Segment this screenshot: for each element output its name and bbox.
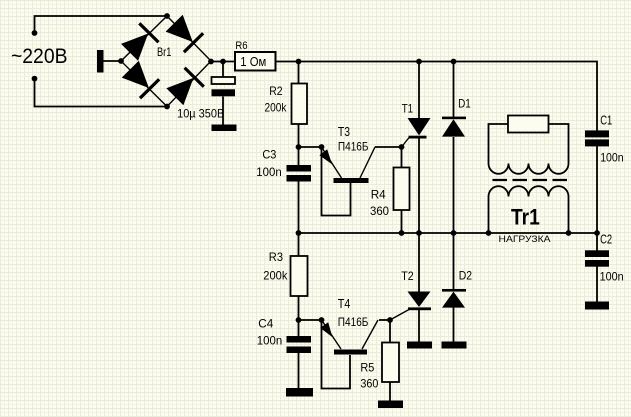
- svg-text:Br1: Br1: [157, 45, 172, 59]
- svg-text:R5: R5: [360, 361, 374, 375]
- node mid rail R3: [296, 230, 302, 236]
- capacitor C2: [585, 232, 624, 283]
- node bridge bottom: [164, 104, 170, 110]
- node mid rail T1/T2: [416, 230, 422, 236]
- ground bar under D2: [442, 342, 467, 349]
- node cap junction: [220, 59, 226, 65]
- node top rail D1: [451, 59, 457, 65]
- transistor T3: [319, 125, 368, 183]
- svg-text:10µ 350В: 10µ 350В: [177, 109, 225, 121]
- primary winding arcs: [489, 164, 569, 174]
- diode top-right: [165, 14, 205, 54]
- capacitor 10u 350V electrolytic: [177, 77, 235, 121]
- node mid rail R4: [399, 230, 405, 236]
- diode D1: [442, 96, 471, 136]
- node AC terminal bottom: [32, 76, 38, 82]
- wire node R3/C4 to T4: [299, 319, 322, 321]
- ground bar under 10u cap: [212, 125, 237, 132]
- wire mid rail: [299, 232, 598, 234]
- capacitor C4: [257, 317, 311, 354]
- wire transformer secondary ends: [488, 197, 490, 234]
- wire D2 branch: [453, 233, 455, 289]
- primary loop wires: [489, 124, 509, 164]
- svg-text:C3: C3: [262, 148, 276, 162]
- diode D2: [442, 268, 472, 307]
- capacitor C3: [256, 148, 311, 182]
- thyristor T1: [402, 101, 431, 138]
- wire R5 node down: [389, 320, 391, 343]
- transistor T4: [320, 297, 368, 355]
- node bridge left: [118, 58, 124, 64]
- svg-text:П416Б: П416Б: [338, 315, 369, 329]
- svg-text:C2: C2: [600, 232, 612, 246]
- wire C4 branch: [298, 320, 300, 336]
- resistor R4: [370, 168, 410, 219]
- wire 10u cap branch: [222, 62, 224, 78]
- ground bar left of bridge: [97, 50, 104, 73]
- diode top-left: [120, 22, 160, 62]
- resistor R2: [265, 84, 308, 125]
- wire D1 branch: [453, 62, 455, 118]
- resistor box in transformer primary loop: [508, 116, 549, 133]
- secondary winding arcs: [489, 186, 569, 196]
- wire T3 collector to node: [375, 146, 402, 148]
- bridge diamond wires: [121, 16, 211, 107]
- node mid rail Tr1 left: [486, 230, 492, 236]
- svg-text:D1: D1: [458, 96, 471, 110]
- svg-text:~220В: ~220В: [11, 44, 68, 68]
- wire C1 to mid rail: [596, 146, 598, 233]
- wire bridge left node to ground bar: [103, 60, 121, 62]
- resistor R3: [263, 250, 307, 296]
- diode bottom-right: [165, 67, 205, 107]
- wire T4 collector to node: [379, 319, 390, 321]
- transistor T4 collector line: [362, 320, 378, 349]
- svg-text:T3: T3: [338, 125, 350, 139]
- core dashed line: [493, 179, 568, 181]
- thyristor T1 gate line: [402, 137, 410, 147]
- diode bottom-left: [121, 60, 161, 100]
- transistor T3 collector line: [360, 147, 375, 178]
- svg-text:200k: 200k: [265, 101, 288, 115]
- ground bar under C2: [585, 302, 609, 310]
- transistor T4 emitter line: [322, 320, 342, 349]
- node mid rail C1/C2: [594, 230, 600, 236]
- node T2 gate / R5: [387, 317, 393, 323]
- wire T1 cathode to mid rail: [418, 138, 420, 233]
- wire AC bottom: [35, 79, 168, 107]
- capacitor C1: [585, 113, 624, 164]
- wire top rail: [276, 62, 598, 132]
- svg-text:T1: T1: [402, 101, 414, 115]
- ground bar under T2: [407, 342, 432, 349]
- thyristor T2: [401, 269, 431, 310]
- wire T2 branch: [418, 233, 420, 292]
- node top rail R2: [296, 59, 302, 65]
- svg-text:360: 360: [370, 204, 389, 218]
- wire C2 branch: [596, 233, 598, 251]
- svg-text:П416Б: П416Б: [338, 140, 369, 154]
- transformer Tr1: [489, 124, 569, 197]
- svg-text:R2: R2: [269, 84, 283, 98]
- svg-text:100n: 100n: [600, 270, 624, 284]
- svg-text:R3: R3: [269, 250, 283, 264]
- svg-text:C4: C4: [258, 317, 273, 331]
- resistor R5: [360, 343, 399, 391]
- ground bar under C4: [286, 388, 313, 397]
- wire T1 branch top: [418, 62, 420, 119]
- wire R2 branch: [298, 62, 300, 84]
- svg-text:1 Ом: 1 Ом: [240, 54, 266, 69]
- node mid rail Tr1 right: [566, 230, 572, 236]
- node T4 emitter: [319, 317, 325, 323]
- wire T3 base loop: [322, 147, 351, 216]
- node T1 gate / R4: [399, 144, 405, 150]
- svg-text:T4: T4: [338, 297, 351, 311]
- svg-text:T2: T2: [401, 269, 414, 283]
- wire bridge right node to R6: [211, 61, 235, 63]
- wire AC top: [35, 16, 168, 33]
- wire C3 to mid rail: [298, 148, 300, 165]
- node bridge right: [208, 59, 214, 65]
- ground bar under R5: [378, 401, 403, 409]
- wire R3 branch: [298, 233, 300, 256]
- resistor R6: [235, 40, 276, 71]
- node top rail T1: [416, 59, 422, 65]
- wire node R2/C3 to T3 emitter: [299, 146, 322, 148]
- transistor T3 emitter line: [322, 147, 342, 178]
- svg-text:R4: R4: [371, 188, 386, 202]
- thyristor T2 gate line: [390, 310, 409, 321]
- wire T4 base loop: [322, 320, 351, 389]
- svg-text:Tr1: Tr1: [511, 204, 540, 229]
- svg-text:100n: 100n: [257, 334, 282, 348]
- node T3 emitter: [319, 144, 325, 150]
- svg-text:D2: D2: [459, 268, 472, 282]
- node R2/C3: [296, 144, 302, 150]
- wire R4 node: [401, 147, 403, 168]
- svg-text:НАГРУЗКА: НАГРУЗКА: [499, 234, 552, 245]
- svg-text:360: 360: [360, 377, 378, 391]
- svg-text:100n: 100n: [256, 165, 281, 179]
- svg-text:R6: R6: [235, 40, 247, 52]
- node AC terminal top: [32, 30, 38, 36]
- svg-text:200k: 200k: [263, 268, 288, 282]
- svg-text:C1: C1: [600, 113, 612, 127]
- node bridge top: [164, 13, 170, 19]
- svg-text:100n: 100n: [600, 151, 624, 165]
- node mid rail D1/D2: [451, 230, 457, 236]
- node R3/C4: [296, 317, 302, 323]
- node dots: [32, 13, 600, 323]
